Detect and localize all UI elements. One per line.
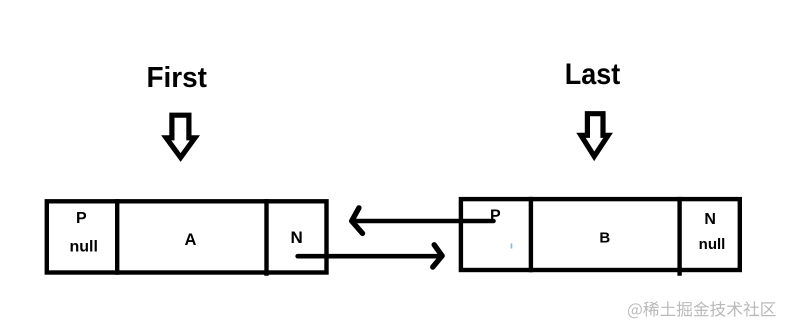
svg-text:First: First bbox=[146, 62, 207, 94]
arrow B.P -> left (prev pointer) shaft bbox=[354, 219, 494, 224]
node A divider A|N (tick below) bbox=[264, 199, 268, 276]
svg-text:N: N bbox=[290, 228, 302, 247]
svg-text:null: null bbox=[69, 238, 97, 255]
node A box outline bbox=[47, 201, 327, 272]
hollow down arrow under First bbox=[166, 115, 195, 157]
arrow A.N -> right (next pointer) head bbox=[433, 245, 442, 267]
svg-text:B: B bbox=[599, 229, 610, 246]
svg-text:N: N bbox=[704, 211, 716, 228]
node B divider B|N (tick below) bbox=[677, 197, 681, 276]
svg-text:P: P bbox=[76, 210, 87, 227]
node B divider P|B bbox=[529, 197, 533, 272]
svg-text:null: null bbox=[699, 236, 726, 253]
svg-text:Last: Last bbox=[565, 58, 621, 91]
watermark @稀土掘金技术社区 bbox=[628, 301, 776, 318]
arrow A.N -> right (next pointer) shaft bbox=[298, 254, 437, 259]
arrow B.P -> left (prev pointer) head bbox=[352, 208, 363, 234]
stray blue tick in B.P cell bbox=[511, 243, 513, 248]
node B box outline bbox=[461, 199, 740, 270]
hollow down arrow under Last bbox=[581, 114, 608, 157]
svg-text:A: A bbox=[185, 231, 197, 249]
node A divider P|A bbox=[115, 199, 119, 275]
